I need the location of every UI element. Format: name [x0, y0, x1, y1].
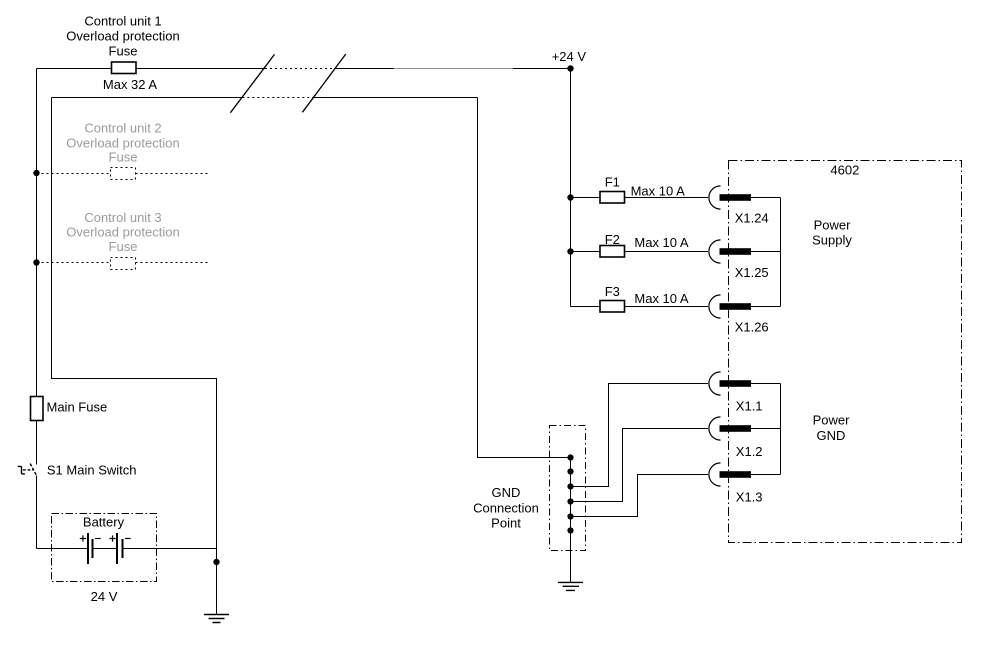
svg-text:Supply: Supply: [812, 233, 852, 248]
svg-text:Control unit 2: Control unit 2: [84, 120, 161, 135]
svg-text:Overload protection: Overload protection: [66, 135, 179, 150]
svg-text:X1.3: X1.3: [736, 490, 763, 505]
svg-text:Power: Power: [813, 413, 851, 428]
svg-text:S1 Main Switch: S1 Main Switch: [47, 463, 137, 478]
svg-text:Max 32 A: Max 32 A: [103, 77, 158, 92]
svg-text:Connection: Connection: [473, 500, 539, 515]
svg-text:Overload protection: Overload protection: [66, 29, 179, 44]
svg-text:X1.1: X1.1: [736, 399, 763, 414]
svg-text:Fuse: Fuse: [109, 44, 138, 59]
svg-text:Max 10 A: Max 10 A: [631, 183, 686, 198]
svg-text:Battery: Battery: [83, 515, 125, 530]
svg-text:Point: Point: [491, 516, 521, 531]
svg-text:F2: F2: [605, 232, 620, 247]
svg-text:F1: F1: [605, 174, 620, 189]
svg-text:X1.25: X1.25: [735, 265, 769, 280]
svg-text:X1.24: X1.24: [735, 211, 769, 226]
svg-text:24 V: 24 V: [91, 589, 118, 604]
svg-text:Control unit 1: Control unit 1: [84, 14, 161, 29]
svg-text:Overload protection: Overload protection: [66, 224, 179, 239]
svg-text:+24 V: +24 V: [552, 49, 587, 64]
svg-text:Fuse: Fuse: [109, 239, 138, 254]
svg-text:GND: GND: [817, 428, 846, 443]
svg-text:Max 10 A: Max 10 A: [634, 235, 689, 250]
svg-text:GND: GND: [492, 485, 521, 500]
svg-text:4602: 4602: [830, 162, 859, 177]
svg-text:X1.26: X1.26: [735, 320, 769, 335]
svg-text:F3: F3: [605, 284, 620, 299]
svg-text:Max 10 A: Max 10 A: [634, 291, 689, 306]
svg-text:Main Fuse: Main Fuse: [47, 400, 108, 415]
svg-text:X1.2: X1.2: [736, 444, 763, 459]
svg-text:Fuse: Fuse: [109, 150, 138, 165]
svg-text:Power: Power: [814, 218, 852, 233]
svg-text:Control unit 3: Control unit 3: [84, 210, 161, 225]
